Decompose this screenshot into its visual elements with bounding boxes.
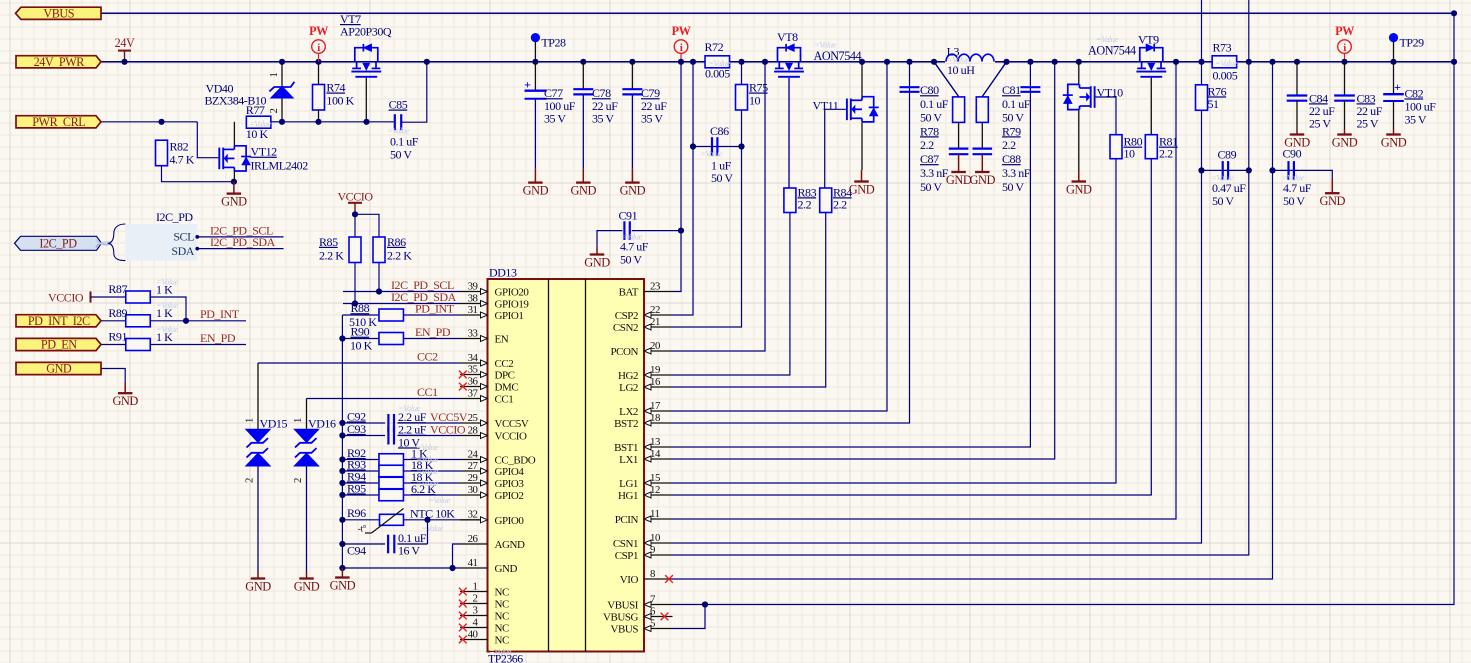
wire pin37 CC1	[307, 398, 461, 400]
flag VBUS	[16, 7, 102, 19]
node C93 left	[339, 432, 345, 438]
svg-text:PCIN: PCIN	[615, 514, 639, 526]
capacitor C80 on BST2	[900, 86, 920, 88]
svg-text:R79: R79	[1002, 124, 1021, 138]
pin 27 GPIO4	[460, 470, 488, 472]
node R96 left	[339, 517, 345, 523]
pin 21 CSN2	[644, 326, 673, 328]
svg-text:50 V: 50 V	[920, 180, 942, 194]
svg-text:CC1: CC1	[495, 394, 514, 406]
svg-text:50 V: 50 V	[1283, 194, 1305, 208]
svg-text:24: 24	[468, 448, 479, 460]
node pin9 bus	[1246, 59, 1252, 65]
ground C91	[596, 248, 598, 255]
wire pin29 row	[342, 482, 460, 484]
capacitor C88	[973, 148, 993, 150]
svg-text:C85: C85	[389, 98, 408, 112]
svg-text:24V_PWR: 24V_PWR	[34, 55, 86, 69]
svg-text:35 V: 35 V	[592, 112, 614, 126]
pin 4 NC	[460, 627, 488, 629]
wire pin33 row	[342, 338, 460, 340]
pin 2 NC	[460, 603, 488, 605]
wire pin34 CC2	[258, 362, 460, 364]
ground C79	[631, 169, 633, 183]
ground VT10	[1078, 170, 1080, 182]
pin 28 VCCIO	[460, 435, 488, 437]
ground flag GND	[124, 382, 126, 394]
node pin20 vert bus	[762, 59, 768, 65]
capacitor C82	[1393, 62, 1395, 94]
capacitor C83	[1344, 62, 1346, 96]
wire PD_INT	[150, 320, 247, 322]
svg-text:27: 27	[468, 460, 479, 472]
pin 33 EN	[460, 338, 488, 340]
svg-text:39: 39	[468, 280, 478, 292]
svg-text:=Value: =Value	[249, 119, 272, 129]
wire pin31 row	[342, 314, 460, 316]
svg-text:R82: R82	[170, 140, 189, 154]
pin 36 DMC	[460, 386, 488, 388]
svg-text:LG1: LG1	[619, 478, 638, 490]
svg-text:GND: GND	[571, 183, 597, 197]
svg-text:50 V: 50 V	[390, 147, 412, 161]
wire EN_PD	[150, 344, 247, 346]
svg-text:1 K: 1 K	[156, 330, 173, 344]
node L3 left tap	[931, 59, 937, 65]
wire VT11 top	[861, 62, 863, 97]
svg-text:PD_INT: PD_INT	[200, 307, 240, 321]
node pin7 join	[702, 601, 708, 607]
svg-text:29: 29	[468, 472, 478, 484]
svg-text:GND: GND	[330, 578, 356, 592]
node GND row left	[339, 565, 345, 571]
svg-text:24V: 24V	[115, 36, 135, 50]
node pin39/R86	[376, 288, 382, 294]
svg-text:VCC5V: VCC5V	[495, 418, 529, 430]
svg-text:HG2: HG2	[618, 370, 638, 382]
svg-text:SDA: SDA	[171, 244, 194, 258]
wire VBUS right vert	[673, 13, 1455, 604]
svg-text:GPIO19: GPIO19	[495, 299, 530, 311]
resistor R78	[953, 97, 965, 123]
wire L3 right diag	[982, 62, 1006, 97]
pin 5 VBUS	[644, 628, 673, 630]
wire pin38 row	[343, 303, 460, 305]
pin 16 LG2	[644, 386, 673, 388]
svg-text:2: 2	[244, 478, 256, 483]
svg-text:EN_PD: EN_PD	[415, 325, 451, 339]
wire 24V_PWR main bus	[102, 61, 1455, 63]
capacitor C89	[1222, 161, 1224, 180]
resistor R77	[246, 116, 271, 128]
svg-text:EN_PD: EN_PD	[200, 331, 236, 345]
capacitor C93	[387, 427, 389, 445]
svg-text:VT11: VT11	[813, 99, 839, 113]
svg-text:TP28: TP28	[541, 35, 566, 49]
svg-text:BST1: BST1	[614, 442, 638, 454]
wire PWR_CRL row	[102, 121, 198, 123]
capacitor C78	[582, 62, 584, 89]
svg-text:CSP1: CSP1	[615, 550, 638, 562]
wire R91 in	[102, 344, 128, 346]
svg-text:37: 37	[468, 387, 479, 399]
wire pin18 vert	[673, 62, 910, 423]
svg-text:GND: GND	[495, 563, 518, 575]
node pin14 bus	[1052, 59, 1058, 65]
flag PWR_CRL	[16, 116, 101, 128]
svg-text:=Value: =Value	[428, 495, 451, 505]
resistor R75	[736, 85, 748, 111]
svg-text:DD13: DD13	[489, 266, 517, 280]
node C83 bus	[1341, 59, 1347, 65]
node PD_INT join	[183, 318, 189, 324]
capacitor C81 on BST1	[1020, 86, 1040, 88]
svg-text:4.7 uF: 4.7 uF	[620, 239, 649, 253]
wire VT10 gate row	[1096, 97, 1116, 135]
resistor R96 NTC	[380, 514, 404, 525]
pin 8 VIO	[644, 578, 673, 580]
resistor R89	[126, 315, 151, 327]
svg-text:31: 31	[468, 304, 478, 316]
pin 3 NC	[460, 615, 488, 617]
svg-text:AP20P30Q: AP20P30Q	[340, 25, 392, 39]
ground C83	[1344, 129, 1346, 135]
resistor R72	[705, 56, 730, 68]
svg-text:26: 26	[468, 533, 479, 545]
svg-text:10 uH: 10 uH	[947, 63, 975, 77]
svg-text:2.2 K: 2.2 K	[319, 248, 344, 262]
ground VD15	[257, 571, 259, 579]
wire L3 left diag	[934, 62, 959, 97]
node VT7 drain row	[363, 119, 369, 125]
svg-text:HG1: HG1	[618, 490, 638, 502]
node C78 bus	[580, 59, 586, 65]
wire pin20 vert	[673, 62, 766, 351]
svg-text:VIO: VIO	[620, 574, 639, 586]
node C90 left	[1269, 167, 1275, 173]
svg-text:16 V: 16 V	[398, 544, 420, 558]
svg-text:VT8: VT8	[777, 30, 798, 44]
svg-text:4.7 K: 4.7 K	[170, 153, 195, 167]
svg-text:=Value: =Value	[1215, 58, 1238, 68]
wire VT12 drain up	[233, 122, 235, 146]
pin 24 CC_BDO	[460, 459, 488, 461]
ground VD16	[306, 571, 308, 579]
svg-text:3.3 nF: 3.3 nF	[1002, 166, 1031, 180]
port I2C_PD	[15, 236, 102, 250]
pin 20 PCON	[644, 350, 673, 352]
svg-text:1: 1	[292, 418, 304, 423]
node L3 right tap	[1003, 59, 1009, 65]
svg-text:34: 34	[468, 352, 479, 364]
transistor VT7	[355, 48, 378, 62]
svg-text:C81: C81	[1002, 83, 1021, 97]
svg-text:IRLML2402: IRLML2402	[251, 159, 309, 173]
svg-text:C91: C91	[619, 209, 638, 223]
svg-text:8: 8	[650, 568, 655, 580]
svg-text:VCCIO: VCCIO	[430, 423, 466, 437]
wire R85 col	[354, 214, 356, 303]
svg-text:0.005: 0.005	[1213, 69, 1238, 83]
transistor VT11	[846, 99, 848, 121]
node VD40 bottom	[279, 119, 285, 125]
flag 24V_PWR	[16, 56, 101, 68]
svg-text:NC: NC	[495, 599, 509, 611]
svg-text:GND: GND	[849, 182, 875, 196]
resistor R85	[349, 237, 361, 263]
svg-text:16: 16	[650, 376, 661, 388]
wire left col 342	[341, 315, 343, 568]
svg-text:VCCIO: VCCIO	[495, 431, 527, 443]
svg-text:LG2: LG2	[619, 382, 638, 394]
resistor R93	[379, 465, 404, 477]
svg-text:C94: C94	[347, 544, 366, 558]
pin 41 GND	[460, 567, 488, 569]
diode VD40 zener	[281, 62, 283, 122]
svg-text:GND: GND	[112, 394, 138, 408]
svg-text:1 K: 1 K	[156, 306, 173, 320]
node C94 left	[339, 541, 345, 547]
svg-text:LX2: LX2	[619, 406, 638, 418]
svg-text:i: i	[317, 42, 320, 54]
svg-text:R74: R74	[326, 81, 345, 95]
node R92 left	[339, 456, 345, 462]
svg-text:SCL: SCL	[173, 230, 194, 244]
svg-text:50 V: 50 V	[920, 111, 942, 125]
svg-text:28: 28	[468, 424, 478, 436]
node R74 top	[315, 59, 321, 65]
svg-text:=Value: =Value	[416, 466, 439, 476]
wire SCL stub	[197, 236, 283, 238]
resistor R92	[379, 454, 404, 466]
node C91 right	[678, 228, 684, 234]
svg-text:C88: C88	[1002, 152, 1021, 166]
svg-text:C87: C87	[920, 152, 939, 166]
node R95 left	[339, 492, 345, 498]
svg-text:1: 1	[244, 418, 256, 423]
capacitor C92	[387, 414, 389, 432]
capacitor C86	[711, 137, 713, 156]
node pin17 bus	[884, 59, 890, 65]
wire pin8 vert	[673, 62, 1273, 579]
pin 25 VCC5V	[460, 422, 488, 424]
wire pin17 vert	[673, 62, 888, 411]
svg-text:PCON: PCON	[610, 346, 638, 358]
pin 10 CSN1	[644, 542, 673, 544]
IC U1 DD13 TP2366 body	[488, 279, 645, 652]
wire gate jog	[197, 122, 218, 158]
wire R84 to pin16	[673, 213, 826, 388]
svg-text:PD_INT_I2C: PD_INT_I2C	[28, 314, 90, 328]
node pin23 vert bus	[678, 59, 684, 65]
flag PD_INT_I2C	[16, 315, 101, 327]
svg-text:GND: GND	[1332, 135, 1358, 149]
svg-text:GND: GND	[620, 183, 646, 197]
node VT10 bus	[1076, 59, 1082, 65]
transistor VT9	[1140, 48, 1163, 62]
svg-text:35: 35	[468, 363, 478, 375]
svg-text:2.2: 2.2	[798, 197, 812, 211]
svg-text:GPIO4: GPIO4	[495, 466, 525, 478]
diode VD16	[306, 399, 308, 430]
wire pin5 jog	[673, 605, 706, 629]
svg-text:I2C_PD: I2C_PD	[39, 237, 77, 251]
resistor R79	[976, 97, 988, 123]
wire C86 row	[693, 146, 742, 148]
svg-text:36: 36	[468, 375, 479, 387]
resistor R82	[156, 140, 168, 166]
testpoint TP29	[1389, 33, 1398, 42]
node VD40 top	[279, 59, 285, 65]
wire R82 bottom	[162, 166, 234, 182]
svg-text:38: 38	[468, 292, 478, 304]
svg-text:CSP2: CSP2	[615, 310, 638, 322]
svg-text:GPIO0: GPIO0	[495, 515, 525, 527]
pin 40 NC	[460, 639, 488, 641]
wire row to C85	[367, 121, 396, 123]
wire R80 to pin15	[673, 159, 1117, 483]
wire GND flag	[102, 369, 126, 382]
svg-text:NC: NC	[495, 623, 509, 635]
svg-text:50 V: 50 V	[711, 171, 733, 185]
node VCCIO2	[352, 211, 358, 217]
svg-text:GND: GND	[46, 362, 72, 376]
svg-text:1: 1	[268, 72, 280, 77]
svg-text:AON7544: AON7544	[1088, 43, 1136, 57]
svg-text:10: 10	[749, 94, 761, 108]
capacitor C85	[394, 114, 396, 130]
wire R78 to C87	[958, 122, 960, 148]
svg-text:2: 2	[473, 592, 478, 604]
resistor R84	[820, 188, 832, 213]
svg-text:10 K: 10 K	[246, 127, 269, 141]
node R72 right	[738, 59, 744, 65]
svg-text:41: 41	[468, 557, 478, 569]
svg-text:R87: R87	[108, 282, 127, 296]
svg-text:0.005: 0.005	[705, 67, 730, 81]
pin 6 VBUSG	[644, 616, 673, 618]
pin 12 HG1	[644, 494, 673, 496]
svg-text:VCCIO: VCCIO	[337, 189, 373, 203]
svg-text:100 uF: 100 uF	[1405, 99, 1437, 113]
node R74 bottom	[315, 119, 321, 125]
resistor R87	[126, 291, 151, 303]
svg-text:2.2: 2.2	[1002, 138, 1016, 152]
svg-text:2.2: 2.2	[833, 197, 847, 211]
svg-text:=Value: =Value	[708, 58, 731, 68]
node C79 bus	[629, 59, 635, 65]
pin 18 BST2	[644, 422, 673, 424]
svg-text:GND: GND	[221, 194, 247, 208]
svg-text:35 V: 35 V	[544, 112, 566, 126]
svg-text:35 V: 35 V	[641, 112, 663, 126]
svg-text:=Value: =Value	[700, 149, 723, 159]
node C84 bus	[1294, 59, 1300, 65]
pin 7 VBUSI	[644, 604, 673, 606]
svg-text:+: +	[1394, 80, 1401, 94]
svg-text:2.2: 2.2	[1159, 147, 1173, 161]
resistor R81	[1145, 135, 1157, 159]
node C86 left	[690, 143, 696, 149]
pin 37 CC1	[460, 398, 488, 400]
node R96 right	[424, 517, 430, 523]
transistor VT12	[218, 148, 220, 170]
svg-text:32: 32	[468, 509, 478, 521]
svg-text:CC2: CC2	[417, 349, 438, 363]
wire pin28 row	[342, 435, 460, 437]
wire C85 to bus	[402, 62, 427, 122]
svg-text:R90: R90	[351, 325, 370, 339]
node pin8 bus	[1269, 59, 1275, 65]
ground col342	[341, 568, 343, 578]
wire R79 to C88	[981, 122, 983, 148]
svg-text:2: 2	[292, 478, 304, 483]
ground C82	[1393, 129, 1395, 135]
harness I2C_PD box	[125, 224, 197, 261]
wire pin13 vert	[673, 62, 1031, 447]
ground VT11	[861, 170, 863, 182]
svg-text:23: 23	[650, 280, 660, 292]
svg-text:R85: R85	[319, 235, 338, 249]
node VBUS corner bus	[1451, 59, 1457, 65]
pin 9 CSP1	[644, 554, 673, 556]
wire C94 row	[342, 520, 427, 544]
svg-text:17: 17	[650, 400, 661, 412]
ground C78	[582, 169, 584, 183]
svg-text:25: 25	[468, 412, 478, 424]
pin 22 CSP2	[644, 314, 673, 316]
testpoint TP28	[531, 33, 540, 42]
node R82 top	[158, 119, 164, 125]
svg-text:10: 10	[1124, 147, 1136, 161]
svg-text:PW: PW	[309, 24, 328, 38]
svg-text:DPC: DPC	[495, 370, 515, 382]
resistor R90	[379, 333, 404, 345]
svg-text:3.3 nF: 3.3 nF	[920, 166, 949, 180]
transistor VT8	[778, 48, 801, 62]
pin 15 LG1	[644, 482, 673, 484]
svg-text:C93: C93	[347, 422, 366, 436]
pin 30 GPIO2	[460, 494, 488, 496]
wire pin41 GND row	[342, 567, 460, 569]
pin 26 AGND	[460, 543, 488, 545]
capacitor C77	[534, 62, 536, 91]
wire R83 to pin19	[673, 213, 790, 376]
resistor R74	[318, 62, 320, 85]
svg-text:R96: R96	[347, 506, 366, 520]
wire pin11 vert	[673, 62, 1177, 519]
svg-text:VBUSI: VBUSI	[607, 600, 639, 612]
svg-text:GND: GND	[523, 183, 549, 197]
wire C90 row	[1273, 170, 1333, 178]
ground C88	[981, 154, 983, 172]
resistor R91	[126, 339, 151, 351]
node 24V	[121, 59, 127, 65]
node pin38/R85	[352, 300, 358, 306]
svg-text:35 V: 35 V	[1405, 112, 1427, 126]
resistor R76	[1196, 85, 1208, 111]
svg-text:=Value: =Value	[1096, 34, 1119, 44]
svg-text:33: 33	[468, 327, 478, 339]
svg-text:25 V: 25 V	[1357, 117, 1379, 131]
svg-text:R73: R73	[1213, 40, 1232, 54]
wire pin24 row	[342, 459, 460, 461]
svg-text:DMC: DMC	[495, 382, 519, 394]
node R93 left	[339, 468, 345, 474]
pin 31 GPIO1	[460, 314, 488, 316]
flag GND	[16, 362, 101, 374]
wire pin23 vert	[673, 62, 682, 292]
